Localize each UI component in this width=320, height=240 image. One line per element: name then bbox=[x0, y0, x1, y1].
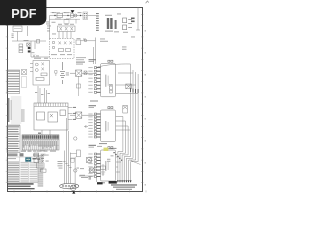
contact CR2 bbox=[70, 112, 94, 118]
wire: lower bus (7 conductors) bbox=[118, 163, 131, 182]
value label: CB2 labels bbox=[123, 19, 132, 33]
wire: diagonal to corner bbox=[131, 161, 141, 165]
node: bottom border triangle marker bbox=[72, 191, 75, 194]
value label: row above stamps bbox=[21, 151, 36, 152]
value label: riser labels bbox=[35, 92, 50, 95]
junction box J2 bbox=[75, 150, 80, 186]
wire: cable jogs to J2 bbox=[70, 153, 76, 158]
PDF badge overlay bbox=[0, 0, 46, 25]
connector P1 (plug oval) bbox=[60, 183, 79, 188]
value label: CR1 header lines bbox=[76, 57, 86, 60]
wire: PLC drops to strip bbox=[42, 130, 50, 136]
terminal block TB1 bbox=[83, 12, 88, 20]
node: junction cluster at transition bbox=[114, 152, 123, 161]
node: zone labels right margin bbox=[145, 30, 146, 186]
transformer T3 bbox=[114, 20, 119, 32]
value label: K2 labels bbox=[58, 23, 74, 26]
value label: relay 6RB caption bbox=[89, 145, 97, 148]
highlight marker (yellow) bbox=[104, 148, 109, 151]
node: conductor ticks bbox=[63, 162, 71, 168]
wire: spare arrow lead bbox=[85, 125, 89, 127]
value label: tiny left labels bbox=[12, 34, 29, 41]
notes list column (center-bottom) bbox=[38, 156, 44, 187]
fuse column F7 (vertical strip of marks) bbox=[96, 13, 99, 31]
breaker CB2 bbox=[123, 18, 127, 30]
wire: second distribution run bbox=[50, 19, 81, 23]
value label: M1 labels bbox=[51, 53, 72, 56]
breaker CB1 bbox=[13, 26, 22, 32]
value label: destination rows under bus bbox=[111, 184, 137, 189]
wire: separator under vertical text bbox=[7, 124, 20, 126]
value label: top run labels bbox=[52, 12, 82, 19]
value label: label in CN1 bbox=[72, 187, 74, 188]
wire: stubs into M2 bbox=[30, 64, 33, 72]
resistor R9 bbox=[110, 85, 113, 94]
value label: aux labels bbox=[40, 150, 49, 161]
value label: labels near plug bbox=[80, 175, 92, 180]
node: junction dots on top runs bbox=[54, 15, 81, 16]
wire: drop from top border bbox=[136, 7, 140, 30]
value label: mark above strip bbox=[38, 133, 41, 134]
node: junction segments on bus bbox=[130, 88, 138, 93]
contact X5 (aux beside CR1) bbox=[84, 71, 87, 75]
contact bank K1 bbox=[27, 43, 30, 46]
wire: mid bus joiners (3 conductors) bbox=[123, 117, 128, 151]
parts list table (left middle) bbox=[7, 126, 20, 153]
node: legend box with X bbox=[22, 70, 27, 88]
diode bank D3 bbox=[126, 84, 132, 89]
transformer T2 (hatched cores) bbox=[105, 15, 113, 32]
auxiliary cluster below strip bbox=[34, 153, 46, 172]
battery B1 bbox=[60, 62, 65, 84]
wire: feeder from CB1 bbox=[12, 26, 50, 57]
node: small tap mark bbox=[55, 71, 57, 77]
node: dark arrow cluster bbox=[97, 181, 117, 184]
control module M1 (dashed) bbox=[50, 39, 75, 59]
wire: page border frame bbox=[8, 8, 143, 192]
wire: zone tick marks on borders bbox=[6, 15, 146, 193]
value label: marks right of teal stamp bbox=[33, 158, 45, 160]
value label: scattered top-right labels bbox=[100, 14, 135, 50]
value label: marks near F2 bbox=[32, 52, 40, 56]
wire: CR1 drop with aux device bbox=[77, 77, 81, 97]
stamp row bbox=[8, 153, 46, 156]
value label: module bottom captions bbox=[90, 101, 107, 184]
wire: upper bus (4 conductors) bbox=[130, 64, 138, 150]
instrument circle G2 bbox=[74, 137, 77, 140]
drawing number rows (dark, bottom left) bbox=[8, 183, 35, 189]
value label: cluster labels left of K2 bbox=[47, 26, 56, 35]
PLC module U5 bbox=[34, 103, 68, 130]
value label: labels left of transition bbox=[107, 155, 114, 161]
wire: top distribution run bbox=[50, 16, 97, 39]
contact CR1 bbox=[70, 70, 94, 76]
wire: risers from 4RB up to CB3 area bbox=[94, 47, 96, 64]
breaker CB3 bbox=[76, 38, 96, 48]
wire: risers into PLC bbox=[38, 86, 47, 103]
wire: bottom feeder bbox=[79, 176, 97, 182]
value label: conductor labels bbox=[58, 161, 63, 169]
instrument circle G3 bbox=[74, 169, 77, 172]
node: top border triangle marker bbox=[71, 10, 75, 13]
connector circle CN1 (on bottom border) bbox=[70, 185, 76, 191]
wire: bus transition jogs bbox=[118, 150, 138, 163]
relay module relay 6RB bbox=[88, 147, 115, 181]
value label: labels near CN1 bbox=[77, 168, 85, 169]
relay module relay 5RB bbox=[88, 107, 115, 142]
revision table (upper left) bbox=[7, 70, 20, 94]
value label: 6RB top labels bbox=[97, 146, 117, 149]
transformer T1 bbox=[57, 13, 77, 17]
value label: mid labels bbox=[76, 38, 86, 64]
fuse bank F1 bbox=[19, 44, 23, 53]
value label: M2 caption bbox=[34, 57, 48, 60]
wire: four conductor cable bbox=[64, 150, 70, 184]
wire: riser pair above cable bbox=[66, 118, 68, 152]
fuse stack F2 (dark) bbox=[28, 47, 31, 53]
value label: relay 4RB caption bbox=[89, 59, 97, 62]
resistor R12 bbox=[123, 106, 128, 114]
relay contact row K2 bbox=[58, 26, 76, 32]
value label: extra top-center labels bbox=[46, 12, 73, 24]
contact CR3 bbox=[87, 158, 95, 173]
value label: fragments above notes column bbox=[37, 151, 57, 152]
lamp panel M2 bbox=[33, 61, 50, 86]
ground lead G1 bbox=[101, 164, 106, 176]
node: label frame right of cable bbox=[71, 158, 74, 162]
wire: PLC right pin stubs bbox=[68, 108, 73, 120]
wire: drops from K2 bbox=[59, 32, 71, 39]
vertical certification text (left margin) bbox=[8, 96, 25, 124]
node: bus arrowheads bbox=[117, 180, 132, 182]
terminal strip X1 (dense table) bbox=[22, 135, 59, 150]
relay module relay 4RB bbox=[88, 60, 115, 97]
svg-text:PDF: PDF bbox=[11, 7, 36, 21]
value label: PLC pin labels bbox=[73, 107, 76, 120]
node: page corner curl mark bbox=[146, 1, 149, 3]
wire: feeders to bus bbox=[96, 64, 138, 172]
contact X3 bbox=[33, 55, 35, 58]
value label: B1 label bbox=[66, 73, 69, 76]
notes text block (bottom left) bbox=[7, 157, 38, 183]
company logo stamp (teal) bbox=[25, 157, 31, 161]
value label: relay 5RB caption bbox=[89, 105, 97, 108]
